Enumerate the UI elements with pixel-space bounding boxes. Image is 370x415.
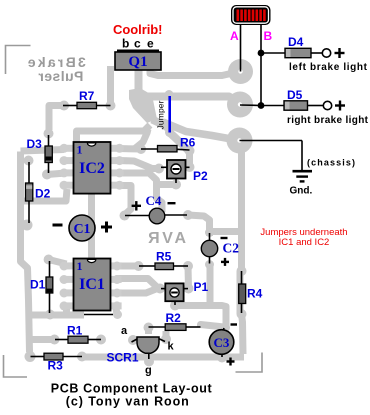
svg-text:k: k: [168, 341, 175, 353]
svg-text:IC2: IC2: [79, 160, 105, 177]
svg-text:Coolrib!: Coolrib!: [113, 22, 163, 37]
svg-text:Gnd.: Gnd.: [290, 186, 313, 197]
svg-text:R6: R6: [180, 136, 196, 150]
svg-text:a: a: [121, 325, 128, 337]
svg-text:1: 1: [77, 259, 83, 273]
svg-text:b: b: [122, 37, 129, 51]
svg-text:R7: R7: [79, 89, 95, 103]
svg-text:D3: D3: [27, 137, 43, 151]
svg-text:(c) Tony van Roon: (c) Tony van Roon: [66, 395, 189, 409]
svg-text:SCR1: SCR1: [107, 351, 139, 365]
svg-text:left brake light: left brake light: [289, 62, 368, 73]
svg-text:R4: R4: [247, 287, 263, 301]
svg-text:Q1: Q1: [128, 54, 147, 70]
svg-text:P1: P1: [194, 280, 209, 294]
svg-text:Jumper: Jumper: [156, 100, 166, 129]
svg-text:C2: C2: [223, 241, 240, 256]
svg-text:R3: R3: [48, 359, 64, 373]
svg-text:IC1: IC1: [79, 276, 105, 293]
svg-text:e: e: [147, 37, 154, 51]
svg-text:D5: D5: [287, 88, 303, 102]
svg-text:g: g: [145, 365, 152, 377]
svg-text:PCB Component Lay-out: PCB Component Lay-out: [51, 382, 213, 396]
svg-text:Pulser: Pulser: [38, 68, 84, 84]
svg-text:c: c: [134, 37, 141, 51]
svg-text:P2: P2: [193, 169, 208, 183]
svg-text:R5: R5: [156, 250, 172, 264]
svg-text:D2: D2: [35, 187, 51, 201]
svg-text:R1: R1: [67, 324, 83, 338]
svg-text:C4: C4: [146, 193, 162, 208]
svg-text:D4: D4: [288, 35, 304, 49]
svg-text:right brake light: right brake light: [287, 115, 369, 126]
svg-text:C3: C3: [214, 335, 230, 350]
svg-text:A: A: [230, 29, 239, 43]
svg-text:C1: C1: [73, 222, 90, 237]
svg-text:B: B: [264, 29, 273, 43]
svg-text:R2: R2: [166, 311, 182, 325]
svg-text:D1: D1: [30, 278, 46, 292]
svg-text:(chassis): (chassis): [307, 158, 355, 168]
svg-text:1: 1: [77, 143, 83, 157]
svg-text:IC1 and IC2: IC1 and IC2: [279, 237, 330, 248]
svg-text:AVR: AVR: [148, 230, 186, 247]
